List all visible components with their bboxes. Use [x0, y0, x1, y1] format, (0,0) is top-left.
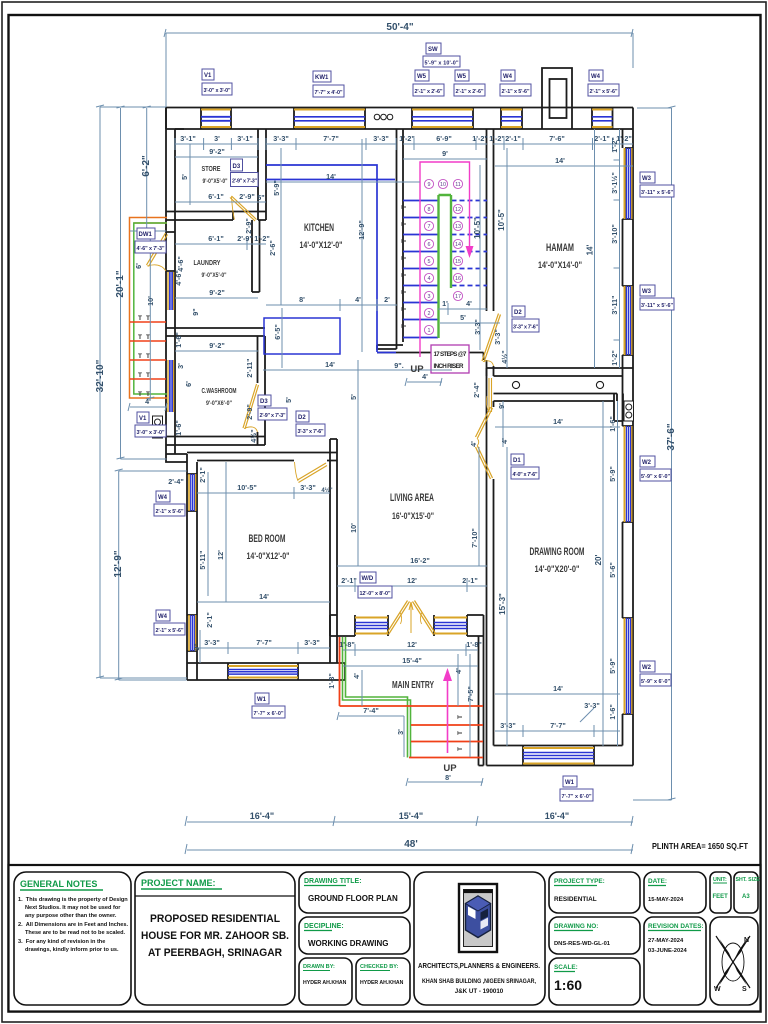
tag V1 top — [202, 69, 232, 95]
store bottom wall — [166, 212, 266, 221]
stair bottom wall — [377, 345, 484, 353]
svg-text:SW: SW — [428, 47, 438, 53]
dim left 10 — [130, 229, 166, 399]
svg-text:9".: 9". — [394, 361, 403, 370]
unit box — [710, 872, 731, 913]
svg-text:12': 12' — [407, 640, 417, 649]
svg-text:7'-7" x 4'-0": 7'-7" x 4'-0" — [315, 90, 343, 96]
svg-text:RESIDENTIAL: RESIDENTIAL — [554, 896, 597, 903]
svg-text:3': 3' — [176, 363, 185, 369]
svg-text:5': 5' — [349, 394, 358, 400]
svg-text:W2: W2 — [642, 665, 652, 671]
porch green line — [343, 637, 411, 758]
svg-text:9'-2": 9'-2" — [209, 341, 225, 350]
svg-text:LAUNDRY: LAUNDRY — [194, 258, 221, 267]
svg-text:W5: W5 — [457, 74, 467, 80]
svg-text:3'-3": 3'-3" — [493, 329, 502, 345]
window KW1 top — [294, 110, 365, 128]
svg-text:8': 8' — [299, 295, 305, 304]
svg-text:W5: W5 — [417, 74, 427, 80]
drawn by box — [299, 958, 352, 1005]
svg-text:3'-3": 3'-3" — [204, 638, 220, 647]
living bottom wall — [330, 353, 484, 637]
svg-text:D2: D2 — [298, 415, 306, 421]
svg-text:4½": 4½" — [500, 350, 509, 363]
tag KW1 top — [313, 71, 344, 97]
door DW1 laundry left — [147, 233, 168, 267]
dim living verticals — [358, 360, 479, 566]
svg-text:7: 7 — [428, 224, 431, 230]
svg-text:PROJECT TYPE:: PROJECT TYPE: — [554, 878, 605, 885]
svg-text:50'-4": 50'-4" — [386, 22, 413, 33]
svg-text:HYDER AH.KHAN: HYDER AH.KHAN — [360, 980, 404, 986]
svg-text:1. This drawing is the proper: 1. This drawing is the property of Desig… — [18, 897, 128, 903]
dim drawing 14 bottom row — [495, 693, 620, 695]
svg-text:S: S — [742, 986, 747, 993]
dim store row 6-1 — [175, 201, 266, 203]
tag V1 left — [135, 412, 166, 437]
svg-text:2. All Dimensions are in Feet: 2. All Dimensions are in Feet and Inches… — [18, 922, 128, 928]
T marks left flight — [401, 205, 408, 328]
svg-text:9': 9' — [497, 403, 506, 409]
compass box — [710, 917, 758, 1005]
dim laundry row 6-1 2-9 1-2 — [175, 238, 266, 250]
svg-text:12: 12 — [455, 207, 461, 213]
svg-text:KITCHEN: KITCHEN — [304, 222, 334, 234]
svg-text:16'-2": 16'-2" — [410, 556, 430, 565]
door D2 hamam left — [482, 314, 501, 363]
svg-text:3'-1": 3'-1" — [180, 134, 196, 143]
svg-text:2'-1": 2'-1" — [341, 576, 357, 585]
svg-text:10': 10' — [146, 296, 155, 306]
sheet size box — [734, 872, 758, 913]
svg-text:7'-5": 7'-5" — [466, 686, 475, 702]
bay tower top — [542, 68, 572, 108]
laundry right wall — [252, 220, 260, 292]
dim kitchen row 8-4-2 — [266, 299, 397, 311]
svg-text:1'-8": 1'-8" — [466, 640, 482, 649]
svg-text:HYDER AH.KHAN: HYDER AH.KHAN — [303, 980, 347, 986]
svg-text:9': 9' — [442, 149, 448, 158]
drawing title box — [299, 872, 410, 913]
svg-text:T: T — [401, 222, 408, 226]
svg-text:DRAWING TITLE:: DRAWING TITLE: — [304, 878, 362, 885]
drawing no box — [549, 917, 640, 954]
dim left 32-10 — [96, 105, 187, 678]
bedroom left windows W4 — [189, 474, 196, 651]
checked by box — [356, 958, 410, 1005]
svg-text:03-JUNE-2024: 03-JUNE-2024 — [648, 948, 687, 954]
svg-text:32'-10": 32'-10" — [95, 359, 106, 392]
svg-text:27-MAY-2024: 27-MAY-2024 — [648, 938, 684, 944]
svg-text:16: 16 — [455, 276, 461, 282]
tag D2 bedroom — [296, 411, 325, 436]
svg-text:CHECKED BY:: CHECKED BY: — [360, 964, 399, 970]
svg-text:T: T — [138, 391, 142, 398]
svg-text:D2: D2 — [514, 310, 522, 316]
svg-text:9": 9" — [192, 643, 201, 650]
svg-text:6'-9": 6'-9" — [436, 134, 452, 143]
svg-text:5': 5' — [460, 313, 466, 322]
svg-text:4': 4' — [454, 668, 463, 674]
svg-text:2'-1": 2'-1" — [205, 612, 214, 628]
svg-text:T: T — [138, 353, 142, 360]
drawing room bottom wall — [487, 746, 634, 766]
window W3b right wall — [625, 286, 632, 355]
dim porch 7-4 row — [337, 712, 404, 720]
svg-text:7'-6": 7'-6" — [549, 134, 565, 143]
svg-text:N: N — [744, 937, 749, 944]
svg-text:1'-2": 1'-2" — [399, 134, 415, 143]
dim right 37-6 — [633, 106, 676, 800]
svg-text:W4: W4 — [503, 74, 513, 80]
svg-text:2'-1": 2'-1" — [462, 576, 478, 585]
svg-text:1': 1' — [442, 299, 448, 308]
tag W5a top — [413, 70, 444, 96]
svg-text:5': 5' — [180, 174, 189, 180]
svg-text:6': 6' — [134, 263, 143, 269]
window W3a right wall — [625, 148, 632, 219]
dim bedroom 9 left — [199, 630, 201, 663]
svg-text:4': 4' — [352, 673, 361, 679]
general notes box — [14, 872, 131, 1005]
svg-text:SCALE:: SCALE: — [554, 964, 578, 971]
door D3 store (bottom wall) — [230, 196, 257, 221]
svg-text:15-MAY-2024: 15-MAY-2024 — [648, 897, 684, 903]
dim kitchen verticals — [281, 139, 362, 368]
left verandah green line — [134, 223, 167, 394]
svg-text:T: T — [146, 353, 150, 360]
svg-text:3': 3' — [396, 729, 405, 735]
svg-text:REVISION DATES:: REVISION DATES: — [648, 923, 704, 930]
svg-text:2'-1": 2'-1" — [198, 467, 207, 483]
bedroom top wall — [187, 453, 337, 461]
door passage hamam corridor — [489, 378, 492, 412]
svg-text:12'-0" x 8'-0": 12'-0" x 8'-0" — [360, 591, 391, 597]
svg-text:FEET: FEET — [713, 894, 729, 900]
svg-text:4': 4' — [355, 295, 361, 304]
tag D2 hamam — [512, 306, 539, 332]
svg-text:2'-9": 2'-9" — [237, 234, 253, 243]
svg-text:W4: W4 — [158, 614, 168, 620]
dim bottom row 16-4 — [185, 816, 633, 826]
tag W4b top — [588, 70, 619, 96]
svg-text:2'-9": 2'-9" — [244, 218, 253, 234]
svg-text:T: T — [138, 315, 142, 322]
svg-text:15'-4": 15'-4" — [399, 811, 423, 821]
svg-text:T: T — [146, 372, 150, 379]
svg-text:T: T — [401, 256, 408, 260]
tag W4 left lower — [154, 610, 185, 635]
svg-text:1'-2": 1'-2" — [610, 350, 619, 366]
17 steps label — [431, 345, 469, 373]
svg-text:BED ROOM: BED ROOM — [249, 533, 286, 545]
svg-text:1: 1 — [428, 328, 431, 334]
svg-text:3'-3": 3'-3" — [500, 721, 516, 730]
svg-text:1'-6": 1'-6" — [608, 704, 617, 720]
washroom left window — [168, 360, 174, 412]
svg-text:7'-7": 7'-7" — [550, 721, 566, 730]
drawing room top wall — [494, 394, 624, 422]
svg-text:14': 14' — [553, 684, 563, 693]
svg-text:14': 14' — [259, 592, 269, 601]
svg-text:V1: V1 — [204, 73, 212, 79]
svg-text:4': 4' — [422, 372, 428, 381]
dim stairs 4 bottom — [405, 378, 442, 386]
dim bedroom 10-5 row — [197, 487, 330, 499]
svg-text:1'-6": 1'-6" — [174, 332, 183, 348]
revision dates box — [644, 917, 706, 1005]
svg-text:7'-7": 7'-7" — [256, 638, 272, 647]
dim hamam 10-5 vertical — [506, 148, 508, 368]
svg-text:W/D: W/D — [362, 576, 374, 582]
tag D1 living — [511, 454, 539, 479]
scale box — [549, 958, 640, 1005]
svg-text:14: 14 — [455, 242, 461, 248]
svg-text:4': 4' — [500, 438, 509, 444]
svg-text:17: 17 — [455, 294, 461, 300]
OOO symbol — [374, 114, 393, 120]
tag WD living — [358, 572, 392, 598]
svg-text:6'-1": 6'-1" — [208, 234, 224, 243]
svg-text:T: T — [401, 273, 408, 277]
svg-text:8': 8' — [445, 773, 451, 782]
main entry double door — [387, 601, 410, 635]
svg-text:3'-3": 3'-3" — [373, 134, 389, 143]
svg-text:3. For any kind of revision i: 3. For any kind of revision in the — [18, 939, 105, 945]
svg-text:3'-3": 3'-3" — [473, 319, 482, 335]
OO symbol washroom — [153, 416, 163, 438]
svg-text:DRAWING ROOM: DRAWING ROOM — [530, 546, 585, 558]
svg-text:14'-0"X12'-0": 14'-0"X12'-0" — [247, 551, 290, 562]
window W1a bedroom bottom — [228, 666, 298, 678]
svg-text:Next Studios. It may not be us: Next Studios. It may not be used for — [25, 905, 121, 911]
kitchen counter top band and right run — [266, 165, 396, 353]
svg-text:AT PEERBAGH, SRINAGAR: AT PEERBAGH, SRINAGAR — [148, 947, 282, 959]
left exterior wall (store/laundry/washroom) — [166, 108, 184, 455]
dim row stairs top — [403, 138, 487, 150]
svg-text:5'-9": 5'-9" — [608, 658, 617, 674]
svg-text:4': 4' — [466, 299, 472, 308]
dim porch 8 row — [406, 778, 483, 786]
svg-text:2'-1" x 2'-6": 2'-1" x 2'-6" — [456, 89, 484, 95]
svg-text:14': 14' — [555, 156, 565, 165]
svg-text:3'-3" x 7'-6": 3'-3" x 7'-6" — [298, 429, 324, 435]
svg-text:T: T — [457, 731, 464, 735]
right exterior wall hamam — [623, 129, 634, 746]
svg-text:48': 48' — [404, 839, 418, 850]
dim laundry 9-2 — [175, 297, 258, 299]
tag W3b right — [640, 285, 674, 310]
svg-text:12': 12' — [407, 576, 417, 585]
svg-text:9'-0"X6'-0": 9'-0"X6'-0" — [206, 400, 232, 407]
svg-text:16'-4": 16'-4" — [250, 811, 274, 821]
svg-text:7'-10": 7'-10" — [470, 528, 479, 548]
svg-text:14': 14' — [553, 417, 563, 426]
svg-text:DRAWN BY:: DRAWN BY: — [303, 964, 335, 970]
porch right wall — [479, 636, 484, 766]
svg-text:2'-1" x 2'-6": 2'-1" x 2'-6" — [415, 89, 443, 95]
svg-text:any purpose other than the own: any purpose other than the owner. — [25, 913, 117, 919]
tag W4a top — [500, 70, 531, 96]
window V1 top — [201, 110, 231, 128]
svg-text:DATE:: DATE: — [648, 878, 667, 885]
svg-text:2'-1": 2'-1" — [505, 134, 521, 143]
hamam bottom wall — [487, 368, 634, 376]
svg-text:J&K UT - 190010: J&K UT - 190010 — [455, 988, 504, 995]
magenta stair path — [420, 162, 470, 357]
dim bedroom 12 vertical — [208, 462, 226, 602]
svg-text:2'-9": 2'-9" — [245, 404, 254, 420]
dim bottom 48 — [185, 844, 633, 854]
svg-text:14'-0"X20'-0": 14'-0"X20'-0" — [535, 564, 580, 575]
svg-text:T: T — [146, 334, 150, 341]
svg-text:7'-7": 7'-7" — [323, 134, 339, 143]
kitchen right / stair left wall — [397, 129, 404, 349]
window W1b drawing bottom — [523, 748, 594, 764]
svg-text:ARCHITECTS,PLANNERS & ENGINEER: ARCHITECTS,PLANNERS & ENGINEERS. — [418, 961, 540, 970]
svg-text:3: 3 — [428, 294, 431, 300]
svg-text:4'-6": 4'-6" — [176, 256, 185, 272]
dim drawing 14 top row — [495, 426, 620, 428]
svg-text:DW1: DW1 — [139, 232, 153, 238]
bay tower inner duct — [550, 79, 567, 118]
laundry bottom wall — [166, 328, 265, 336]
svg-text:3'-11" x 5'-6": 3'-11" x 5'-6" — [641, 190, 673, 196]
dim stairs 1-4 row — [438, 303, 487, 315]
bedroom top-left step — [166, 454, 187, 462]
svg-text:2'-4": 2'-4" — [168, 477, 184, 486]
svg-text:1'-2": 1'-2" — [472, 134, 488, 143]
svg-text:14': 14' — [586, 245, 595, 256]
tag W2a right — [640, 456, 671, 481]
svg-text:2'-1" x 5'-6": 2'-1" x 5'-6" — [590, 89, 618, 95]
svg-text:T: T — [401, 290, 408, 294]
svg-text:1'-6": 1'-6" — [174, 420, 183, 436]
svg-text:6'-1": 6'-1" — [208, 192, 224, 201]
svg-text:6'-2": 6'-2" — [141, 155, 152, 177]
svg-text:5'-9" x 10'-0": 5'-9" x 10'-0" — [425, 61, 459, 67]
tag DW1 left — [135, 228, 166, 253]
dim porch 12 row — [343, 644, 478, 656]
svg-text:9": 9" — [191, 308, 200, 315]
svg-text:15'-4": 15'-4" — [402, 656, 422, 665]
left verandah orange outline — [130, 218, 168, 399]
project name box — [135, 872, 295, 1005]
svg-text:5": 5" — [257, 193, 264, 202]
svg-text:9'-0"X5'-0": 9'-0"X5'-0" — [203, 178, 228, 185]
svg-text:1'-6": 1'-6" — [608, 416, 617, 432]
svg-text:8: 8 — [428, 207, 431, 213]
svg-text:HAMAM: HAMAM — [546, 242, 574, 254]
svg-text:PLINTH AREA= 1650 SQ.FT: PLINTH AREA= 1650 SQ.FT — [652, 842, 748, 851]
svg-text:12': 12' — [216, 550, 225, 560]
window W4b top — [592, 110, 613, 128]
living bottom windows — [355, 618, 467, 634]
dim stairs 5 row — [440, 322, 500, 324]
window W5a W5b top — [412, 110, 473, 128]
svg-text:1'-2": 1'-2" — [489, 134, 505, 143]
svg-text:These are to be read not to be: These are to be read not to be scaled. — [25, 930, 126, 936]
svg-text:5'-11": 5'-11" — [198, 550, 207, 569]
svg-text:5'-9": 5'-9" — [272, 180, 281, 196]
dim left 20-1 — [117, 106, 167, 459]
tag W1a bottom bedroom — [252, 693, 285, 718]
stair treads dashed upper flight — [452, 201, 488, 286]
svg-text:10': 10' — [349, 523, 358, 533]
dim row kitchen top — [266, 138, 396, 150]
svg-text:LIVING AREA: LIVING AREA — [390, 492, 434, 504]
svg-text:W2: W2 — [642, 460, 652, 466]
svg-text:2'-9" x 7'-3": 2'-9" x 7'-3" — [232, 179, 257, 185]
svg-text:INCH RISER: INCH RISER — [434, 363, 465, 370]
svg-text:5: 5 — [428, 259, 431, 265]
bedroom bottom wall — [187, 615, 345, 680]
svg-text:GROUND FLOOR PLAN: GROUND FLOOR PLAN — [308, 894, 398, 903]
stair right / hamam left wall — [487, 129, 494, 394]
svg-text:14': 14' — [325, 360, 335, 369]
dim porch verticals — [362, 654, 470, 757]
svg-text:W4: W4 — [591, 74, 601, 80]
svg-text:3'-1½": 3'-1½" — [610, 172, 619, 194]
dim store interior 5 — [189, 144, 191, 205]
svg-text:4½": 4½" — [321, 487, 332, 494]
svg-text:2'-1": 2'-1" — [594, 134, 610, 143]
svg-text:6'-5": 6'-5" — [273, 324, 282, 340]
svg-text:A3: A3 — [742, 894, 750, 900]
svg-text:DRAWING NO:: DRAWING NO: — [554, 923, 598, 930]
tag D3 store — [231, 159, 259, 187]
svg-text:PROJECT NAME:: PROJECT NAME: — [141, 878, 216, 888]
OO symbol drawing room top right — [624, 401, 634, 421]
svg-text:PROPOSED RESIDENTIAL: PROPOSED RESIDENTIAL — [150, 913, 280, 925]
svg-text:14'-0"X12'-0": 14'-0"X12'-0" — [300, 240, 343, 251]
svg-text:4'-6" x 7'-3": 4'-6" x 7'-3" — [137, 246, 165, 252]
bedroom left wall — [187, 462, 197, 680]
T marks left steps — [138, 315, 150, 398]
svg-text:1'-8": 1'-8" — [339, 640, 355, 649]
svg-text:7'-7" x 6'-0": 7'-7" x 6'-0" — [254, 711, 284, 717]
svg-text:12'-9": 12'-9" — [357, 220, 366, 240]
dim left 4 strip — [128, 403, 167, 411]
svg-text:1:60: 1:60 — [554, 977, 582, 993]
svg-text:T: T — [457, 747, 464, 751]
tag W5b top — [454, 70, 485, 96]
svg-text:W4: W4 — [158, 495, 168, 501]
svg-text:GENERAL NOTES: GENERAL NOTES — [20, 879, 97, 889]
svg-text:2'-9": 2'-9" — [239, 192, 255, 201]
svg-text:10'-5": 10'-5" — [473, 217, 482, 239]
dim hamam 14 — [495, 165, 633, 167]
dim stairs 10-5 vertical — [479, 165, 481, 350]
svg-text:16'-0"X15'-0": 16'-0"X15'-0" — [392, 511, 434, 522]
tag W4 left upper — [154, 491, 185, 516]
svg-text:2'-11": 2'-11" — [245, 358, 254, 377]
window W4a top — [501, 110, 522, 128]
dim hamam 14 vertical — [594, 129, 596, 368]
dim living 16-2 row — [337, 565, 487, 567]
dim drawing bottom row 7-7 — [495, 708, 620, 737]
svg-text:9: 9 — [428, 182, 431, 188]
svg-text:7'-7" x 6'-0": 7'-7" x 6'-0" — [562, 794, 592, 800]
svg-text:9'-0"X5'-0": 9'-0"X5'-0" — [202, 272, 227, 279]
window W2b right wall — [625, 618, 632, 714]
svg-text:4'-6": 4'-6" — [174, 270, 183, 286]
svg-text:17 STEPS @7: 17 STEPS @7 — [434, 351, 468, 358]
svg-text:C.WASHROOM: C.WASHROOM — [202, 386, 237, 395]
tag W1b bottom drawing — [560, 776, 593, 801]
svg-text:STORE: STORE — [202, 164, 221, 173]
